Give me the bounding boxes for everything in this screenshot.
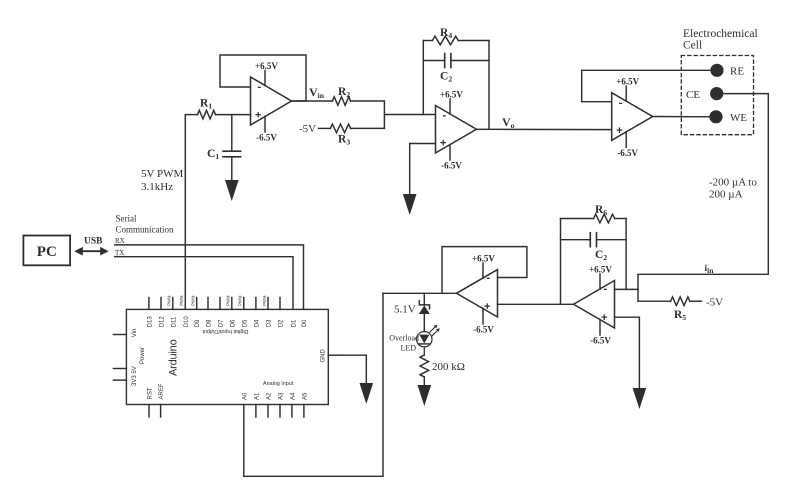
pin D6 <box>231 298 233 310</box>
supply -6.5V of U1 <box>256 116 277 142</box>
resistor 200 kOhm <box>420 355 429 386</box>
label PWM <box>191 295 196 306</box>
svg-text:USB: USB <box>84 237 103 247</box>
label PWM <box>226 295 231 306</box>
svg-text:+: + <box>484 301 490 313</box>
wire: Arduino GND to ground <box>341 355 366 383</box>
svg-text:+6.5V: +6.5V <box>589 265 612 275</box>
supply -6.5V of U5 <box>473 308 494 334</box>
ground below U4 <box>633 388 647 409</box>
pin D7 <box>219 298 221 310</box>
svg-text:5V: 5V <box>132 366 138 373</box>
svg-text:C2: C2 <box>595 249 607 262</box>
svg-text:Serial: Serial <box>116 214 137 224</box>
svg-text:5.1V: 5.1V <box>394 304 416 316</box>
svg-text:-: - <box>487 272 491 284</box>
wire: summing junction to U2 inverting input <box>384 114 435 116</box>
supply +6.5V of U2 <box>440 90 463 115</box>
svg-text:AREF: AREF <box>159 383 165 399</box>
svg-text:D11: D11 <box>171 316 177 327</box>
wire: Arduino pin D10 (PWM) up to R1 <box>184 115 186 310</box>
pin A3 <box>279 405 281 418</box>
wire: U5 output <box>383 292 457 294</box>
svg-text:-: - <box>619 97 623 109</box>
svg-text:+: + <box>440 138 446 150</box>
svg-text:+: + <box>255 110 261 122</box>
pin label Vin <box>132 329 138 338</box>
svg-text:Overload: Overload <box>389 334 419 343</box>
label R2 <box>338 86 350 99</box>
pin D5 <box>243 298 245 310</box>
resistor R5 <box>638 297 702 306</box>
label: 5V PWM 3.1kHz <box>141 168 183 193</box>
pin D2 <box>279 298 281 310</box>
label: Serial Communication <box>116 214 174 235</box>
op-amp U4 (transimpedance) <box>574 281 615 329</box>
wire: U4 inverting input <box>615 288 639 290</box>
svg-text:C1: C1 <box>207 148 219 161</box>
pin label 3V3 <box>132 375 138 386</box>
label RX <box>115 237 125 245</box>
svg-text:PWM: PWM <box>238 295 243 306</box>
label R4 <box>440 27 452 40</box>
pin label A2 <box>267 392 273 400</box>
pin A5 <box>303 405 305 418</box>
svg-text:D5: D5 <box>242 319 248 327</box>
svg-text:-5V: -5V <box>706 297 723 309</box>
svg-text:R2: R2 <box>338 86 350 99</box>
pin label D3 <box>267 319 273 327</box>
label R3 <box>338 134 350 147</box>
svg-text:200 kΩ: 200 kΩ <box>432 361 465 373</box>
pin label D6 <box>230 319 236 327</box>
svg-text:TX: TX <box>115 249 124 257</box>
label iin <box>705 264 715 275</box>
capacitor C2 (U2 feedback) <box>423 54 489 68</box>
Arduino board outline <box>126 309 328 404</box>
supply +6.5V of U5 <box>472 254 495 279</box>
electrode CE <box>710 87 723 100</box>
pin label D12 <box>160 316 166 328</box>
label 200 kOhm <box>432 361 465 373</box>
label C2 (U4 feedback) <box>595 249 607 262</box>
label: -200 uA to 200 uA <box>709 177 757 201</box>
pin label D11 <box>171 316 177 327</box>
pin label D1 <box>292 319 298 327</box>
pin A1 <box>255 405 257 418</box>
label -5V (R5 source) <box>706 297 723 309</box>
pin label D13 <box>147 316 153 328</box>
pin 5V <box>113 368 126 370</box>
svg-text:RX: RX <box>115 237 125 245</box>
zener diode 5.1V <box>419 293 430 331</box>
svg-text:CE: CE <box>686 89 700 101</box>
pin label AREF <box>159 383 165 399</box>
pin label A3 <box>279 392 285 400</box>
wire: U3 feedback from RE electrode <box>582 70 711 101</box>
svg-text:5V PWM: 5V PWM <box>141 168 183 180</box>
svg-text:-6.5V: -6.5V <box>473 325 494 335</box>
label -5V (R3 source) <box>299 123 316 135</box>
label PWM <box>179 295 184 306</box>
svg-text:Arduino: Arduino <box>168 339 180 376</box>
pin label A1 <box>254 392 260 400</box>
svg-text:D6: D6 <box>230 319 236 327</box>
pin label A0 <box>242 392 248 400</box>
resistor R2 <box>332 97 350 106</box>
svg-text:+6.5V: +6.5V <box>472 254 495 264</box>
svg-text:Vin: Vin <box>309 85 325 100</box>
svg-text:R1: R1 <box>200 98 212 111</box>
svg-text:WE: WE <box>730 112 747 124</box>
capacitor C2 (U4 feedback) <box>561 233 627 247</box>
supply -6.5V of U3 <box>617 132 638 158</box>
ground below C1 <box>225 180 239 201</box>
svg-text:A3: A3 <box>279 392 285 400</box>
svg-text:-6.5V: -6.5V <box>256 133 277 143</box>
svg-text:D10: D10 <box>184 316 190 328</box>
svg-text:Power: Power <box>140 347 146 364</box>
label Analog Input <box>263 381 294 387</box>
svg-text:A4: A4 <box>290 392 296 400</box>
wire: U2 feedback right branch <box>488 41 490 130</box>
label Overload LED <box>389 334 419 353</box>
supply +6.5V of U1 <box>255 61 278 86</box>
svg-text:PWM: PWM <box>262 295 267 306</box>
supply +6.5V of U4 <box>589 265 612 290</box>
label: Electrochemical Cell <box>683 28 758 52</box>
svg-text:A0: A0 <box>242 392 248 400</box>
supply -6.5V of U4 <box>590 319 611 345</box>
supply -6.5V of U2 <box>441 144 462 170</box>
pin label D2 <box>279 319 285 327</box>
label RE <box>730 66 744 78</box>
svg-text:iin: iin <box>705 264 715 275</box>
capacitor C1 <box>223 115 241 181</box>
ground below Arduino GND <box>360 383 374 404</box>
svg-text:GND: GND <box>321 349 327 363</box>
pin D13 <box>148 298 150 310</box>
pin label A5 <box>302 392 308 400</box>
pin label D4 <box>254 319 260 327</box>
svg-text:Vin: Vin <box>132 329 138 338</box>
label PWM <box>238 295 243 306</box>
svg-text:-: - <box>604 283 608 295</box>
pin label D5 <box>242 319 248 327</box>
ground below 200 kOhm resistor <box>418 385 432 406</box>
wire: U4 non-inverting input to ground <box>615 317 640 388</box>
electrode WE <box>709 110 722 123</box>
svg-text:R3: R3 <box>338 134 350 147</box>
pin AREF <box>160 405 162 418</box>
wire: U5 output to Arduino A0 <box>244 293 383 476</box>
svg-text:Cell: Cell <box>683 40 702 52</box>
svg-text:-: - <box>258 81 262 93</box>
LED overload indicator <box>417 325 440 355</box>
svg-text:RST: RST <box>148 387 154 399</box>
svg-text:-200 µA to: -200 µA to <box>709 177 757 189</box>
svg-text:3.1kHz: 3.1kHz <box>141 181 173 193</box>
svg-text:-6.5V: -6.5V <box>590 336 611 346</box>
svg-text:R5: R5 <box>674 309 686 322</box>
svg-text:PWM: PWM <box>226 295 231 306</box>
svg-text:D7: D7 <box>219 319 225 327</box>
svg-text:+6.5V: +6.5V <box>440 90 463 100</box>
op-amp U2 (control amplifier) <box>436 106 477 154</box>
pin 3V3 <box>113 379 126 381</box>
pin label A4 <box>290 392 296 400</box>
svg-text:+: + <box>616 125 622 137</box>
pin label D0 <box>302 319 308 327</box>
wire: RX line to Arduino D0 <box>115 245 304 310</box>
svg-text:A5: A5 <box>302 392 308 400</box>
svg-text:Vo: Vo <box>502 115 515 130</box>
wire: CE electrode to current follower input (iin) <box>638 94 768 302</box>
svg-text:D8: D8 <box>207 319 213 327</box>
svg-text:D0: D0 <box>302 319 308 327</box>
pin label RST <box>148 387 154 399</box>
wire: U2 feedback left branch <box>422 41 424 115</box>
pin D3 <box>267 298 269 310</box>
resistor R4 <box>423 36 489 45</box>
pin label D10 <box>184 316 190 328</box>
wire: U1 output (Vin) to R2 <box>292 100 333 102</box>
label TX <box>115 249 124 257</box>
supply +6.5V of U3 <box>616 77 639 102</box>
resistor R1 <box>185 110 250 119</box>
op-amp U3 <box>612 93 653 141</box>
PC box <box>23 236 70 266</box>
label R1 <box>200 98 212 111</box>
node Vo label <box>502 115 515 130</box>
electrode RE <box>710 64 723 77</box>
svg-text:LED: LED <box>400 344 416 353</box>
svg-text:PWM: PWM <box>167 295 172 306</box>
svg-text:PC: PC <box>37 244 57 260</box>
wire: U2 non-inverting input to ground <box>410 144 436 195</box>
pin A4 <box>291 405 293 418</box>
label CE <box>686 89 700 101</box>
label PWM <box>262 295 267 306</box>
pin D12 <box>160 298 162 310</box>
wire: R6/C2 loop left branch <box>560 219 562 305</box>
label Digital Input/Output <box>202 328 249 334</box>
wire: U4 output to U5 non-inverting input <box>498 303 574 305</box>
svg-text:-: - <box>443 110 447 122</box>
svg-text:D1: D1 <box>292 319 298 327</box>
wire: R2 to summing junction <box>351 101 385 128</box>
svg-text:Electrochemical: Electrochemical <box>683 28 758 40</box>
pin label GND <box>321 349 327 363</box>
pin D8 <box>207 298 209 310</box>
wire: TX line to Arduino D1 <box>115 257 293 310</box>
svg-text:D12: D12 <box>160 316 166 328</box>
op-amp U5 (output buffer) <box>457 270 498 317</box>
resistor R6 <box>561 214 627 223</box>
pin RST <box>148 405 150 418</box>
wire: Vo to U3 non-inverting input <box>477 128 612 130</box>
svg-text:Analog Input: Analog Input <box>263 381 294 387</box>
label R6 <box>595 204 607 217</box>
svg-text:-6.5V: -6.5V <box>617 148 638 158</box>
op-amp U1 (buffer) <box>251 77 292 125</box>
svg-text:3V3: 3V3 <box>132 375 138 386</box>
label WE <box>730 112 747 124</box>
svg-text:-5V: -5V <box>299 123 316 135</box>
pin label D7 <box>219 319 225 327</box>
svg-text:+: + <box>601 312 607 324</box>
svg-text:PWM: PWM <box>179 295 184 306</box>
svg-text:-6.5V: -6.5V <box>441 161 462 171</box>
USB bidirectional arrow <box>74 247 109 256</box>
wire: U5 feedback loop <box>442 247 527 294</box>
ground below U2 <box>403 194 417 215</box>
label Power <box>140 347 146 364</box>
svg-text:+6.5V: +6.5V <box>255 61 278 71</box>
svg-text:+6.5V: +6.5V <box>616 77 639 87</box>
pin D9 <box>196 298 198 310</box>
label PWM <box>167 295 172 306</box>
wire: R6/C2 loop right branch <box>625 219 627 290</box>
label 5.1V <box>394 304 416 316</box>
svg-text:R4: R4 <box>440 27 452 40</box>
svg-text:A2: A2 <box>267 392 273 400</box>
svg-text:A1: A1 <box>254 392 260 400</box>
pin D11 <box>172 298 174 310</box>
label R5 <box>674 309 686 322</box>
wire: U3 output to WE electrode <box>653 116 710 118</box>
svg-text:C2: C2 <box>440 71 452 84</box>
pin D4 <box>255 298 257 310</box>
pin label D9 <box>195 319 201 327</box>
svg-text:R6: R6 <box>595 204 607 217</box>
svg-text:D13: D13 <box>147 316 153 328</box>
electrochemical cell dashed box <box>681 56 753 135</box>
svg-text:200 µA: 200 µA <box>709 189 743 201</box>
svg-text:Digital Input/Output: Digital Input/Output <box>202 328 249 334</box>
node Vin label <box>309 85 325 100</box>
pin label D8 <box>207 319 213 327</box>
svg-text:D3: D3 <box>267 319 273 327</box>
svg-text:D4: D4 <box>254 319 260 327</box>
pin GND <box>328 354 341 356</box>
label C1 <box>207 148 219 161</box>
label C2 (U2 feedback) <box>440 71 452 84</box>
label USB <box>84 237 103 247</box>
svg-text:RE: RE <box>730 66 744 78</box>
svg-text:D2: D2 <box>279 319 285 327</box>
svg-text:Communication: Communication <box>116 225 174 235</box>
label Arduino <box>168 339 180 376</box>
svg-text:PWM: PWM <box>191 295 196 306</box>
pin A2 <box>267 405 269 418</box>
label PC <box>37 244 57 260</box>
wire: U1 feedback output to inverting input <box>220 55 306 101</box>
pin Vin <box>113 334 126 336</box>
svg-text:D9: D9 <box>195 319 201 327</box>
resistor R3 <box>319 124 385 133</box>
pin label 5V <box>132 366 138 373</box>
